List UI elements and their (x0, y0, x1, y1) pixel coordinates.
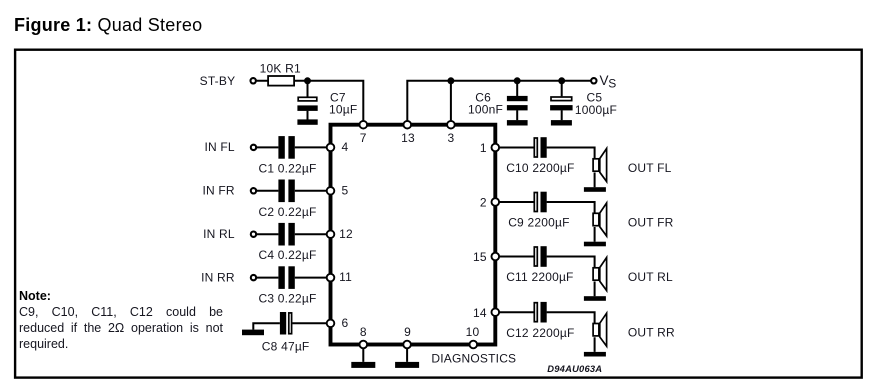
svg-text:10K R1: 10K R1 (260, 62, 301, 76)
svg-text:9: 9 (404, 325, 411, 339)
svg-text:13: 13 (401, 131, 415, 145)
svg-text:15: 15 (473, 250, 487, 264)
svg-text:100nF: 100nF (468, 103, 503, 117)
svg-text:C8 47µF: C8 47µF (262, 340, 310, 354)
svg-text:C10 2200µF: C10 2200µF (506, 161, 574, 175)
svg-text:C9 2200µF: C9 2200µF (508, 216, 569, 230)
svg-text:1: 1 (480, 141, 487, 155)
svg-text:DIAGNOSTICS: DIAGNOSTICS (431, 351, 516, 365)
svg-text:5: 5 (342, 183, 349, 197)
svg-text:12: 12 (339, 227, 353, 241)
svg-text:C4 0.22µF: C4 0.22µF (259, 248, 317, 262)
svg-text:4: 4 (342, 140, 349, 154)
svg-text:14: 14 (473, 306, 487, 320)
svg-text:C11 2200µF: C11 2200µF (506, 270, 573, 284)
svg-text:2: 2 (480, 196, 487, 210)
svg-text:C12 2200µF: C12 2200µF (506, 326, 574, 340)
svg-text:7: 7 (360, 131, 367, 145)
svg-text:10: 10 (466, 325, 480, 339)
svg-text:11: 11 (339, 270, 352, 284)
svg-text:IN FR: IN FR (202, 184, 234, 198)
svg-text:IN RR: IN RR (201, 270, 235, 284)
svg-text:8: 8 (360, 325, 367, 339)
svg-text:IN FL: IN FL (204, 140, 234, 154)
svg-text:1000µF: 1000µF (575, 103, 617, 117)
svg-text:OUT FL: OUT FL (628, 161, 672, 175)
svg-text:S: S (608, 77, 616, 91)
svg-text:C2 0.22µF: C2 0.22µF (259, 205, 317, 219)
svg-text:C1 0.22µF: C1 0.22µF (259, 161, 317, 175)
svg-text:OUT RR: OUT RR (628, 326, 675, 340)
svg-text:OUT RL: OUT RL (628, 270, 673, 284)
svg-text:OUT FR: OUT FR (628, 215, 674, 229)
svg-text:C3 0.22µF: C3 0.22µF (259, 292, 317, 306)
svg-text:6: 6 (342, 316, 349, 330)
svg-text:D94AU063A: D94AU063A (547, 363, 602, 374)
svg-text:3: 3 (447, 131, 454, 145)
svg-text:ST-BY: ST-BY (200, 74, 236, 88)
svg-text:IN RL: IN RL (203, 227, 235, 241)
svg-text:10µF: 10µF (329, 103, 357, 117)
